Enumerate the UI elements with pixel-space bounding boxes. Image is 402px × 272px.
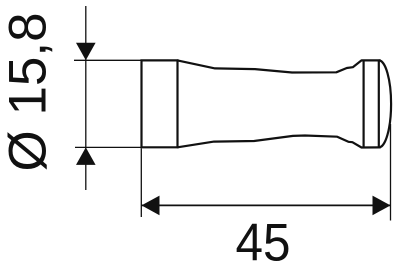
bottom arrowhead (up) (76, 147, 96, 165)
top extension line (74, 59, 142, 61)
ferrule rectangle (left end of handle) (142, 60, 178, 147)
end-cap collar line 1 (363, 60, 365, 147)
svg-text:Ø 15,8: Ø 15,8 (0, 12, 58, 171)
horizontal dimension line for 45 (142, 204, 391, 206)
bottom extension line (75, 146, 142, 148)
right extension line for 45 (390, 124, 392, 221)
domed end cap arc (379, 60, 391, 147)
handle grip bottom edge (178, 136, 381, 148)
left extension line for 45 (140, 149, 142, 218)
end-cap collar line 2 (378, 60, 380, 147)
handle grip top edge (178, 60, 381, 72)
top arrowhead (down) (76, 43, 96, 61)
left arrowhead (left) (142, 196, 160, 216)
svg-text:45: 45 (236, 214, 291, 272)
right arrowhead (right) (373, 196, 391, 216)
vertical dimension line (85, 6, 87, 190)
